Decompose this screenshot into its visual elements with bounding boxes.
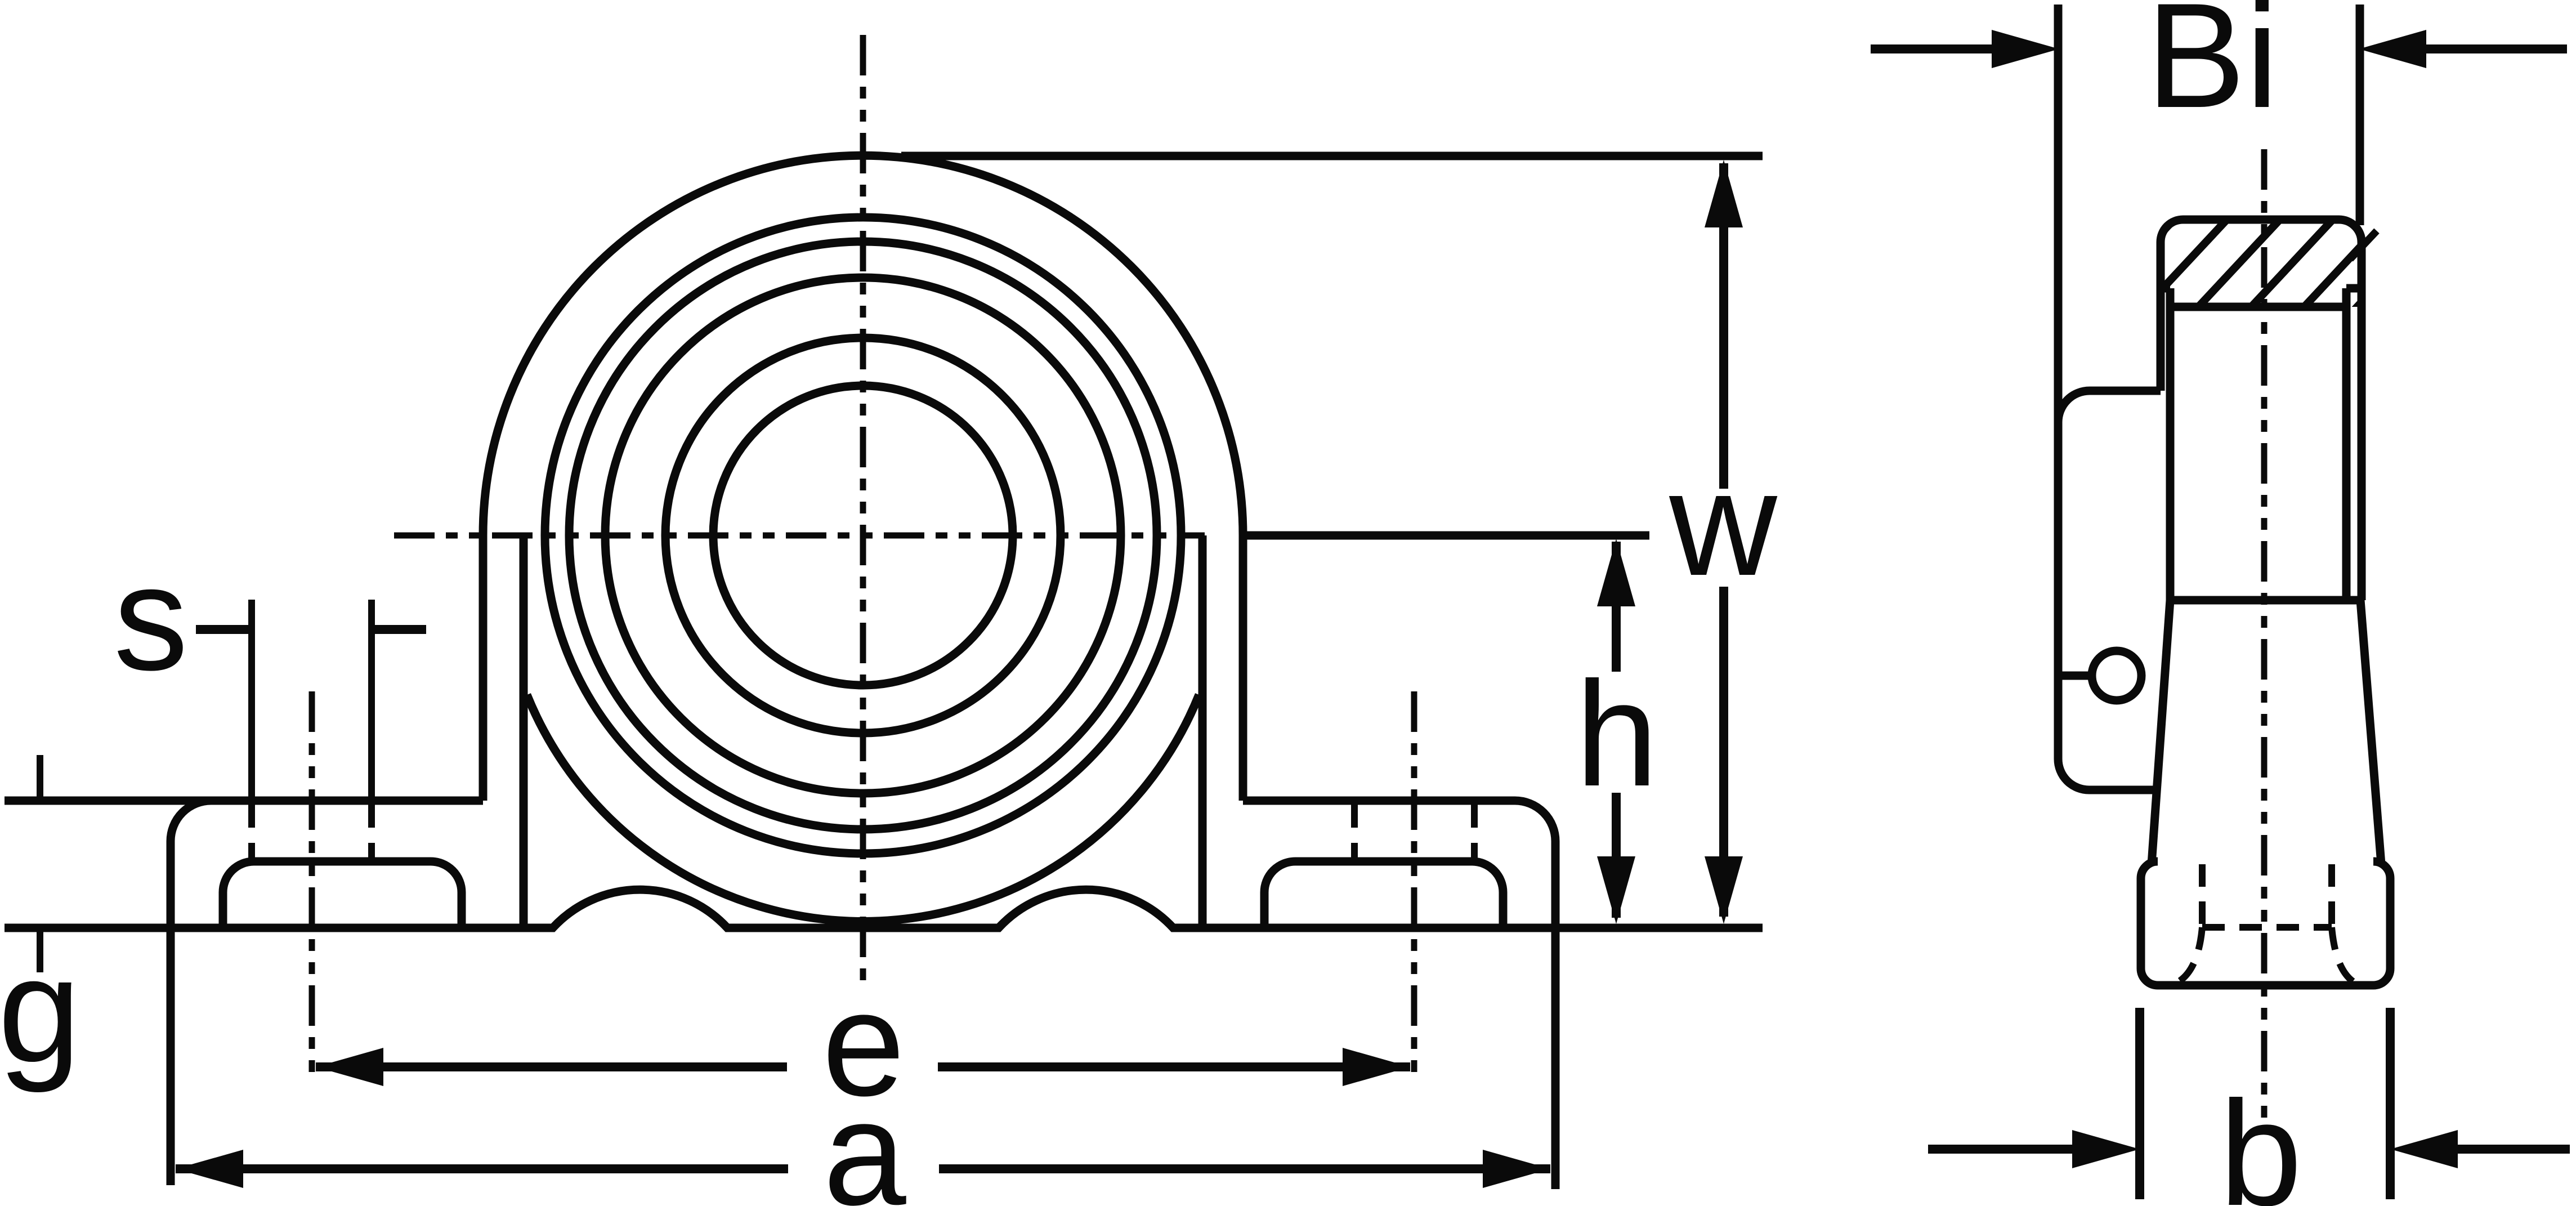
svg-text:a: a [823,1070,907,1206]
svg-text:w: w [1667,440,1779,607]
svg-text:g: g [0,927,81,1094]
svg-text:b: b [2219,1070,2302,1206]
svg-text:Bi: Bi [2146,0,2279,139]
svg-text:s: s [114,535,189,702]
svg-text:h: h [1575,651,1658,818]
